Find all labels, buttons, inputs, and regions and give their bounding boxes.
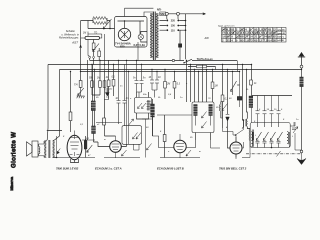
svg-text:50: 50: [146, 127, 149, 129]
trimmer arrow A6: [186, 150, 191, 156]
svg-text:5n: 5n: [143, 78, 146, 80]
trimmer arrow A4: [231, 72, 237, 96]
svg-text:1,2: 1,2: [245, 31, 249, 35]
svg-text:47: 47: [88, 154, 91, 157]
trimmer arrows in B3: [202, 112, 207, 129]
svg-text:6,3: 6,3: [268, 35, 272, 39]
selector wires right: [179, 21, 185, 31]
speaker SP cone: [27, 142, 33, 156]
svg-text:50n: 50n: [143, 94, 147, 96]
trimmer arrow A3: [78, 88, 84, 95]
ground arrow G3: [300, 150, 303, 153]
dash gang line: [246, 153, 302, 155]
svg-text:AST: AST: [71, 40, 79, 44]
node A: [109, 28, 111, 30]
svg-text:0,8: 0,8: [254, 31, 258, 35]
wire: [57, 136, 95, 158]
switch box around pot branch: [88, 32, 105, 72]
resistor R13: [250, 80, 253, 85]
svg-text:NTr: NTr: [157, 8, 161, 12]
resistor R11: [212, 70, 214, 103]
svg-text:0,1: 0,1: [106, 97, 110, 99]
IF box B1 upper: [135, 98, 152, 114]
switch S2: [227, 120, 244, 142]
svg-text:10: 10: [158, 77, 161, 79]
voltage selector wires: [160, 21, 167, 31]
svg-text:2k: 2k: [157, 97, 161, 99]
svg-text:10: 10: [149, 77, 152, 79]
wires T3 area: [153, 115, 196, 148]
svg-text:5n: 5n: [133, 78, 136, 80]
bus wire y71.4: [81, 71, 241, 73]
svg-text:5,6: 5,6: [222, 35, 226, 39]
svg-text:TH: TH: [74, 83, 78, 87]
junction dots: [70, 60, 302, 72]
resistor R3: [98, 51, 101, 57]
svg-text:15: 15: [267, 109, 270, 111]
electrolytic C7: [84, 141, 87, 150]
svg-text:6,3V 0,3A: 6,3V 0,3A: [134, 43, 146, 47]
switch contact dots: [89, 56, 91, 58]
osc coil L4: [246, 119, 247, 127]
wire inside box: [118, 21, 145, 34]
bus wire y64.2: [48, 64, 252, 66]
bus wire y60: [90, 60, 185, 62]
coil B1 inner: [147, 100, 151, 111]
capacitor C4 pair: [137, 65, 144, 98]
label tube U1: [115, 42, 131, 49]
svg-text:35: 35: [273, 31, 276, 35]
component K1: [237, 97, 241, 101]
svg-text:50: 50: [229, 98, 232, 100]
wire TA drop: [216, 61, 238, 72]
svg-text:2,5: 2,5: [250, 31, 254, 35]
voltage table: [222, 28, 287, 43]
trimmer arrow A5: [122, 150, 127, 156]
trimmer arrow A1: [103, 19, 112, 29]
wires box right: [289, 122, 301, 150]
svg-text:8: 8: [63, 136, 65, 138]
coil L2b: [91, 126, 97, 134]
svg-text:1n: 1n: [110, 89, 113, 91]
svg-text:kO/V =: kO/V =: [278, 37, 285, 39]
left vertical wire x57.5: [55, 70, 60, 141]
svg-text:6: 6: [160, 131, 162, 133]
svg-text:220: 220: [171, 20, 176, 23]
coil L6: [220, 104, 221, 111]
svg-text:6: 6: [283, 119, 285, 121]
resistor R2: [92, 43, 95, 50]
svg-text:70: 70: [208, 98, 211, 100]
diode arrow D1: [226, 115, 230, 122]
svg-text:AW: AW: [204, 36, 210, 40]
coil L2a: [90, 101, 97, 111]
svg-text:geg.Ch: geg.Ch: [278, 29, 286, 31]
right cluster verticals: [243, 65, 252, 121]
svg-text:820: 820: [120, 45, 125, 49]
svg-text:5: 5: [281, 109, 283, 111]
resistor R12: [222, 65, 224, 129]
tube V2: [110, 141, 122, 153]
svg-text:0,2: 0,2: [264, 31, 268, 35]
labels component row: [89, 76, 129, 100]
svg-text:1M: 1M: [215, 86, 218, 88]
capacitor C9: [256, 96, 260, 123]
trimmer arrow A8: [87, 145, 93, 152]
coil leads B2: [127, 60, 129, 144]
variable cap arrows: [256, 123, 283, 148]
labels pot: [83, 32, 97, 34]
svg-text:25: 25: [189, 137, 193, 139]
svg-text:0,4: 0,4: [227, 31, 231, 35]
speaker voice coil: [39, 147, 40, 154]
wires terminals down: [167, 15, 179, 19]
svg-text:0,3: 0,3: [177, 84, 181, 86]
wire lamp to transformer: [141, 32, 147, 43]
transformer TR left winding: [150, 13, 153, 58]
wire: [93, 111, 95, 127]
svg-text:2k: 2k: [245, 89, 249, 91]
resistor R6b: [103, 81, 106, 88]
svg-text:7900 SUM 1 EY92: 7900 SUM 1 EY92: [56, 167, 79, 171]
svg-text:2M: 2M: [166, 84, 170, 86]
wire: [93, 134, 95, 143]
selector labels: [171, 20, 176, 33]
svg-text:ECH DUM 1 u. CST A: ECH DUM 1 u. CST A: [95, 167, 122, 171]
tube V4: [230, 142, 242, 154]
speaker frame: [32, 141, 38, 157]
capacitor C5: [150, 70, 154, 91]
svg-text:7,5: 7,5: [264, 38, 268, 42]
transformer TR core: [153, 12, 155, 61]
fuse F2: [178, 44, 182, 48]
svg-text:8,5: 8,5: [240, 31, 244, 35]
svg-text:68: 68: [240, 35, 243, 39]
component row under bus: resistor R5: [91, 65, 93, 96]
resistor R1 double zigzag: [93, 17, 107, 20]
svg-text:7,5: 7,5: [222, 31, 226, 35]
svg-text:7903 SIN BELL CST 2: 7903 SIN BELL CST 2: [219, 167, 247, 171]
svg-text:42: 42: [236, 31, 239, 35]
wire: [46, 131, 62, 158]
svg-text:95: 95: [240, 38, 243, 42]
node A2: [103, 28, 105, 30]
capacitor C3 pair: [135, 60, 139, 92]
svg-text:0,1: 0,1: [80, 124, 84, 126]
svg-text:1k: 1k: [254, 83, 257, 85]
svg-text:72: 72: [250, 38, 253, 42]
svg-text:a: a: [130, 98, 132, 100]
resistor R8: [105, 65, 116, 137]
svg-text:0,1: 0,1: [112, 77, 116, 79]
svg-text:12: 12: [259, 38, 262, 42]
gang coil left: [251, 132, 253, 147]
resistor R14 above tube: [70, 72, 72, 133]
svg-text:2: 2: [222, 38, 224, 42]
capacitor C10: [263, 96, 267, 123]
svg-text:0,1: 0,1: [86, 138, 90, 140]
fuse NSF: [160, 13, 206, 15]
resistor R6: [92, 60, 100, 95]
svg-text:25: 25: [215, 107, 219, 109]
capacitor C6: [152, 72, 159, 98]
coil L3: [150, 104, 155, 117]
tube V3: [174, 140, 186, 152]
svg-text:3,2: 3,2: [236, 35, 240, 39]
gang coil right: [287, 132, 289, 145]
svg-text:4: 4: [231, 38, 233, 42]
svg-text:6,3: 6,3: [227, 28, 231, 32]
svg-text:a: a: [186, 83, 188, 85]
svg-text:0,4: 0,4: [268, 38, 272, 42]
output transformer TR2 right winding: [53, 141, 55, 158]
trimmer arrows in B1: [138, 103, 147, 109]
svg-text:15: 15: [274, 109, 277, 111]
svg-text:Ruhestellung gez.: Ruhestellung gez.: [59, 37, 79, 40]
resistor R16: [103, 118, 106, 125]
trimmer arrow A9: [222, 104, 228, 111]
rectifier tube U1: [118, 28, 130, 40]
output transformer TR2 core: [49, 140, 50, 158]
capacitor C1: [117, 60, 121, 124]
svg-text:5: 5: [259, 109, 261, 111]
svg-text:150: 150: [171, 25, 176, 28]
svg-text:0,1: 0,1: [225, 99, 229, 101]
IF box B3: [192, 102, 214, 133]
capacitor C11: [270, 96, 274, 123]
trimmer arrow A2: [93, 44, 100, 52]
pilot lamp LP: [138, 34, 143, 39]
svg-text:1n: 1n: [180, 97, 183, 99]
mains switch line: [180, 14, 186, 59]
resistor R7: [108, 60, 110, 100]
svg-text:mV 50: mV 50: [278, 40, 285, 42]
svg-text:65: 65: [254, 38, 257, 42]
gang bottom node: [271, 147, 273, 149]
svg-text:L: L: [255, 135, 257, 137]
svg-text:1n: 1n: [296, 119, 299, 121]
wire lamp down to bus: [137, 42, 139, 61]
svg-text:NSF: NSF: [160, 13, 165, 16]
wire: [227, 70, 229, 115]
wire box top to transformer: [125, 8, 154, 16]
svg-text:82: 82: [231, 28, 234, 32]
svg-text:48: 48: [227, 35, 230, 39]
speaker wires: [39, 141, 47, 157]
svg-text:58: 58: [231, 31, 234, 35]
trimmer arrow A7: [292, 122, 298, 133]
vertical wires center cluster: [187, 61, 207, 103]
svg-text:0,5: 0,5: [168, 94, 172, 96]
svg-text:72: 72: [264, 28, 267, 32]
potentiometer pill: [81, 37, 85, 39]
mid horizontal wires: [104, 99, 109, 101]
svg-text:1,5: 1,5: [259, 31, 263, 35]
trimmer arrow A10: [147, 144, 152, 151]
trimmer arrow A11: [129, 119, 134, 125]
svg-text:110: 110: [171, 29, 176, 32]
svg-text:30: 30: [237, 85, 240, 87]
bus wire y69.4: [60, 69, 302, 71]
svg-text:ECH DUM 80 LUST B: ECH DUM 80 LUST B: [157, 167, 184, 171]
resistor R4 on link: [188, 66, 216, 68]
svg-text:95: 95: [254, 28, 257, 32]
svg-text:65: 65: [268, 28, 271, 32]
svg-text:77: 77: [245, 35, 248, 39]
capacitor C12: [277, 96, 281, 123]
svg-text:14: 14: [250, 35, 253, 39]
svg-text:Minerva: Minerva: [10, 176, 14, 191]
coil L7: [248, 96, 253, 108]
svg-text:a1: a1: [97, 124, 100, 126]
output tube V1: [67, 135, 82, 159]
wire: [88, 60, 95, 140]
osc coil L5: [249, 129, 253, 141]
svg-text:a: a: [168, 151, 170, 153]
svg-text:25: 25: [95, 97, 99, 99]
svg-text:1,8: 1,8: [245, 38, 249, 42]
wire: [107, 21, 110, 29]
svg-text:58: 58: [273, 38, 276, 42]
trimmer arrows in B2: [133, 133, 142, 140]
svg-text:m: m: [104, 139, 106, 141]
coil leads B1: [137, 92, 149, 119]
output transformer TR2 left winding: [44, 141, 46, 158]
terminal circles: [165, 12, 168, 15]
antenna ANT: [298, 53, 305, 66]
note text block top-left: [59, 30, 80, 40]
ground arrow G2: [105, 87, 111, 97]
svg-text:L: L: [292, 136, 294, 138]
svg-text:1,8: 1,8: [259, 28, 263, 32]
wire: [81, 21, 115, 29]
svg-text:0: 0: [236, 38, 238, 42]
svg-text:21: 21: [254, 35, 257, 39]
misc tiny labels: [63, 83, 299, 157]
svg-text:82: 82: [273, 35, 276, 39]
resistor TH: [79, 81, 82, 88]
selector contact dots left: [166, 20, 179, 32]
top caps row right: [252, 95, 292, 97]
wires below T3: [160, 157, 200, 159]
transformer TR right winding: [156, 13, 159, 58]
tuning gang box: [250, 123, 290, 148]
svg-text:gem.20: gem.20: [278, 33, 286, 35]
svg-text:Spgn. gemessen: Spgn. gemessen: [218, 25, 235, 27]
coil L1 antenna: [301, 68, 303, 77]
svg-text:m: m: [199, 151, 201, 153]
capacitor C2: [123, 65, 127, 126]
node: [85, 139, 86, 140]
resistor R10: [174, 72, 176, 100]
svg-text:1M: 1M: [97, 78, 100, 80]
svg-text:50k: 50k: [89, 78, 94, 80]
power supply box: [115, 17, 148, 48]
svg-text:12: 12: [273, 28, 276, 32]
coil right in B3: [208, 105, 213, 116]
diode arrow D2: [57, 149, 60, 154]
IF box B2 lower: [122, 126, 142, 145]
switch S1: [184, 59, 237, 63]
ground chassis G1: [77, 87, 85, 98]
left vertical wire x46: [46, 65, 49, 141]
coil left in B3: [193, 105, 198, 116]
resistor R9: [164, 70, 166, 100]
svg-text:TA.Ph.Ans.an: TA.Ph.Ans.an: [197, 58, 214, 61]
svg-text:1M: 1M: [83, 32, 86, 34]
svg-text:Gloriette W: Gloriette W: [11, 132, 18, 168]
resistor R15: [164, 115, 166, 158]
AST line: [80, 21, 82, 81]
svg-text:1n: 1n: [120, 86, 123, 88]
vertical near B2 bottom: [145, 119, 147, 158]
